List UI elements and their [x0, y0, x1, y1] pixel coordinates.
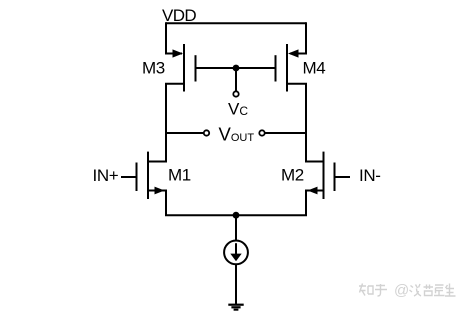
svg-text:VOUT: VOUT — [219, 124, 255, 145]
svg-text:IN+: IN+ — [93, 166, 119, 185]
wire Vout left stub — [166, 132, 204, 134]
wire gate line M3-M4 — [196, 67, 276, 69]
svg-text:M3: M3 — [142, 59, 165, 78]
wire tail rail — [165, 214, 307, 216]
svg-text:M4: M4 — [303, 59, 326, 78]
terminal Vc open circle — [233, 91, 238, 96]
svg-text:M1: M1 — [168, 166, 191, 185]
wire M4 source to VDD — [290, 22, 306, 53]
terminal Vout right open circle — [259, 130, 264, 135]
transistor M4 gate bar — [275, 55, 277, 81]
svg-text:@: @ — [394, 282, 409, 299]
ground — [228, 305, 243, 310]
transistor M1 gate bar — [136, 163, 138, 192]
current source I1 arrowhead — [230, 254, 241, 262]
transistor M3 channel — [183, 44, 185, 92]
wire Vc stub — [235, 68, 237, 91]
transistor M4 source arrow — [288, 49, 299, 57]
svg-text:IN-: IN- — [359, 166, 380, 185]
svg-text:VC: VC — [228, 100, 248, 119]
node tail junction dot — [233, 212, 240, 219]
svg-text:VDD: VDD — [162, 6, 196, 25]
wire M1 gate lead — [121, 176, 137, 178]
wire tail to current source — [235, 215, 237, 240]
transistor M2 source arrow — [308, 187, 318, 195]
current source I1 circle — [224, 241, 248, 265]
wire current source to ground — [235, 264, 237, 304]
transistor M4 channel — [286, 44, 288, 92]
current source I1 arrow — [235, 243, 237, 255]
transistor M2 drain wire — [305, 161, 324, 163]
wire M4 drain down right branch — [287, 84, 306, 163]
wire VDD top rail — [166, 22, 306, 24]
svg-text:M2: M2 — [281, 166, 304, 185]
wire M3 drain down left branch — [166, 84, 184, 163]
transistor M1 source arrow — [155, 187, 165, 195]
watermark zhihu — [359, 284, 456, 297]
transistor M3 gate bar — [195, 55, 197, 81]
wire M1 source to tail — [148, 191, 166, 217]
transistor M1 drain wire — [148, 161, 167, 163]
node gate junction dot — [233, 65, 240, 72]
terminal Vout left open circle — [204, 130, 209, 135]
wire M2 gate lead — [335, 176, 351, 178]
wire M3 source to VDD — [166, 22, 182, 53]
wire M2 source to tail — [306, 191, 324, 217]
transistor M2 channel — [323, 152, 325, 199]
transistor M1 channel — [147, 152, 149, 199]
wire Vout right stub — [265, 132, 306, 134]
transistor M3 source arrow — [173, 49, 184, 57]
transistor M2 gate bar — [334, 163, 336, 192]
